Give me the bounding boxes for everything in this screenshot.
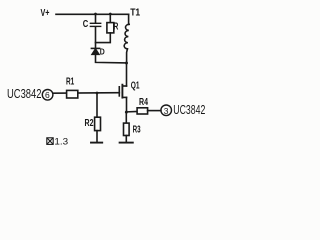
- svg-text:3: 3: [164, 106, 169, 116]
- svg-text:UC3842: UC3842: [7, 87, 42, 101]
- ground symbol left: [91, 142, 102, 144]
- pin circle 6: [42, 90, 53, 101]
- mosfet Q1 drain lead: [123, 85, 127, 87]
- resistor R box: [107, 23, 114, 33]
- svg-text:R2: R2: [85, 118, 94, 129]
- svg-text:R3: R3: [133, 125, 141, 136]
- mosfet Q1 gate bar: [118, 87, 120, 96]
- svg-text:1.3: 1.3: [54, 136, 68, 147]
- junction node rail/R: [109, 13, 112, 16]
- pin circle 3: [161, 105, 172, 116]
- resistor R4 box: [137, 108, 148, 114]
- wire source node down to R3: [125, 112, 127, 123]
- wire C bottom to diode: [95, 27, 97, 48]
- ground symbol right: [120, 142, 133, 144]
- junction node source/R4/R3: [125, 111, 128, 114]
- svg-text:Q1: Q1: [131, 81, 140, 92]
- svg-text:R: R: [113, 21, 119, 32]
- svg-text:R4: R4: [139, 97, 148, 108]
- diode D cathode bar: [91, 47, 99, 49]
- wire D anode to drain node: [96, 54, 127, 63]
- wire R3 to ground: [125, 136, 127, 143]
- svg-text:V+: V+: [41, 8, 50, 19]
- wire gate lead from R1 net: [53, 92, 119, 95]
- mosfet Q1 source lead: [123, 96, 127, 98]
- wire snubber branch drop (R): [109, 14, 111, 23]
- junction node gate/R2: [96, 92, 99, 95]
- wire Q1 source down: [126, 97, 128, 112]
- wire Q1 drain: [126, 63, 128, 86]
- wire R4 to pin 3 circle: [148, 110, 161, 112]
- svg-text:R1: R1: [66, 77, 74, 88]
- svg-text:6: 6: [45, 90, 50, 100]
- svg-text:C: C: [83, 19, 89, 30]
- resistor R3 box: [124, 123, 130, 135]
- svg-text:D: D: [100, 46, 105, 56]
- mosfet Q1 channel bar: [121, 85, 123, 98]
- wire V+ supply rail: [56, 13, 129, 15]
- wire R2 branch drop: [96, 93, 98, 117]
- junction node rail/C: [94, 13, 97, 16]
- capacitor C plates: [90, 22, 100, 24]
- svg-text:T1: T1: [130, 8, 140, 19]
- wire R2 to ground: [96, 131, 98, 143]
- svg-text:UC3842: UC3842: [173, 103, 205, 117]
- wire T1 bottom to drain node: [126, 49, 129, 63]
- wire source node to R4: [127, 111, 138, 113]
- resistor R1 box: [67, 90, 78, 98]
- diode D triangle: [92, 49, 99, 54]
- junction node drain: [125, 62, 128, 65]
- transformer T1 primary winding: [124, 24, 129, 49]
- figure label glyph (tu / figure): [47, 138, 53, 145]
- wire T1 top drop: [128, 14, 130, 24]
- wire R bottom to node: [96, 33, 111, 43]
- resistor R2 box: [95, 117, 101, 130]
- wire snubber branch drop (C): [95, 14, 97, 23]
